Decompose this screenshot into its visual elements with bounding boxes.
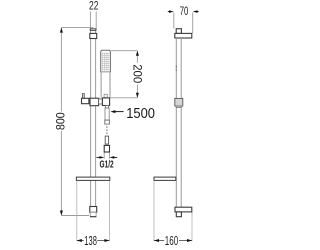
svg-text:138: 138 — [84, 233, 97, 248]
dimension 138 extension line right — [108, 181, 110, 242]
top wall bracket arm side view — [175, 33, 192, 38]
dimension 22 extension line right — [95, 12, 97, 29]
dimension 138 arrow right — [104, 239, 109, 242]
holder bottom tab — [106, 106, 109, 109]
dimension 800 line lower segment — [60, 131, 62, 216]
svg-text:200: 200 — [130, 64, 142, 83]
dimension 1500 leader arrow — [110, 110, 123, 113]
handle bottom notch — [104, 94, 107, 97]
dimension 800 top extension line — [61, 27, 93, 29]
dimension 200 bottom extension line — [110, 97, 137, 99]
hose nipple — [105, 108, 110, 124]
rail top cap front view — [90, 29, 96, 31]
dimension 138 arrow left — [77, 239, 82, 242]
dimension 200 arrow down — [136, 93, 139, 98]
rail side view right line — [180, 38, 182, 207]
dimension 200 line lower segment — [136, 85, 138, 98]
dimension 22 extension line left — [89, 12, 91, 29]
svg-text:800: 800 — [53, 112, 67, 130]
G1/2 extension line right — [109, 153, 111, 159]
hose end stub — [105, 136, 108, 144]
G1/2 text — [100, 159, 114, 171]
rail wear marks side view — [175, 66, 177, 71]
dimension 138 line left segment — [77, 240, 84, 242]
dimension 160 line right segment — [179, 240, 192, 242]
dimension 70 text — [180, 6, 189, 18]
dimension 160 line left segment — [154, 240, 164, 242]
rail side view left line — [175, 38, 177, 207]
dimension 138 text — [84, 233, 97, 248]
G1/2 extension line left — [103, 153, 105, 159]
G1/2 arrow right — [110, 156, 118, 159]
soap dish side view — [154, 177, 176, 180]
slider lever arm — [82, 98, 89, 103]
rail bottom cap front view — [90, 212, 96, 216]
slider lever knob — [82, 94, 84, 99]
rail bottom foot side view — [176, 212, 181, 217]
slider block side view — [175, 98, 183, 107]
svg-text:22: 22 — [89, 1, 99, 13]
slider link — [99, 99, 103, 104]
dimension 160 extension line left — [153, 181, 155, 242]
dimension 160 arrow left — [154, 239, 159, 242]
dimension 800 arrow up — [60, 28, 63, 33]
dimension 200 text — [130, 64, 142, 83]
dimension 138 line right segment — [97, 240, 109, 242]
soap dish front view — [76, 177, 109, 180]
dimension 160 text — [165, 233, 178, 248]
dimension 22 text — [89, 1, 99, 13]
svg-text:G1/2: G1/2 — [100, 159, 114, 171]
dimension 160 extension line right — [191, 212, 193, 241]
dimension 200 arrow up — [136, 51, 139, 56]
slider body — [90, 98, 99, 106]
dimension 1500 text — [126, 106, 155, 122]
svg-text:1500: 1500 — [126, 106, 155, 122]
dimension 800 text — [53, 112, 67, 130]
dimension 800 line upper segment — [60, 28, 62, 112]
dimension 800 bottom extension line — [61, 215, 89, 217]
dimension 138 extension line left — [76, 181, 78, 242]
handle holder — [102, 98, 109, 106]
dimension 70 extension line left — [173, 12, 175, 28]
dimension 200 top extension line — [111, 50, 137, 52]
shower handle front view — [101, 72, 110, 98]
hose break dashes — [106, 126, 108, 134]
dimension 160 arrow right — [187, 239, 192, 242]
svg-text:160: 160 — [165, 233, 178, 248]
shower head front view — [101, 50, 111, 71]
dimension 800 arrow down — [60, 211, 63, 216]
dimension 70 line left — [168, 10, 174, 13]
rail front view right line — [95, 30, 97, 206]
G1/2 connector nut — [104, 145, 109, 152]
dimension 200 line upper segment — [136, 51, 138, 63]
G1/2 arrow left — [97, 156, 105, 159]
rail top stub side view — [176, 29, 181, 34]
rail front view left line — [90, 30, 92, 206]
top wall bracket front view — [90, 33, 97, 38]
svg-text:70: 70 — [180, 6, 189, 18]
dimension 70 line right — [193, 10, 199, 13]
dimension 70 extension line right — [192, 12, 194, 33]
bottom wall bracket arm side view — [175, 207, 192, 212]
rail bottom bracket front view — [90, 207, 97, 213]
